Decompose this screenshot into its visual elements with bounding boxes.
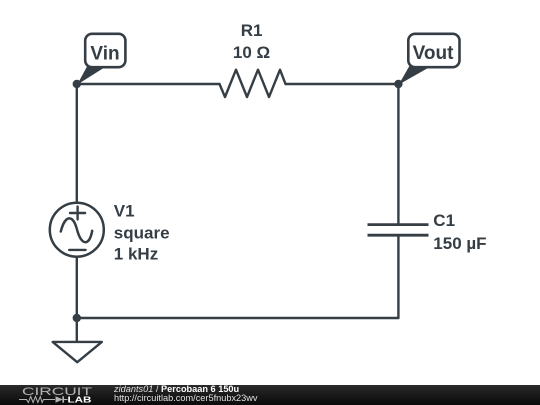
svg-text:150 µF: 150 µF xyxy=(433,234,486,253)
svg-text:LAB: LAB xyxy=(68,395,92,405)
svg-text:Vout: Vout xyxy=(413,43,454,64)
svg-text:C1: C1 xyxy=(433,211,455,230)
svg-text:V1: V1 xyxy=(114,201,135,220)
svg-text:1 kHz: 1 kHz xyxy=(114,245,158,264)
svg-text:square: square xyxy=(114,224,170,243)
svg-text:Vin: Vin xyxy=(90,44,119,65)
svg-text:http://circuitlab.com/cer5fnub: http://circuitlab.com/cer5fnubx23wv xyxy=(114,393,258,403)
svg-text:10 Ω: 10 Ω xyxy=(233,43,270,62)
svg-text:R1: R1 xyxy=(241,21,263,40)
